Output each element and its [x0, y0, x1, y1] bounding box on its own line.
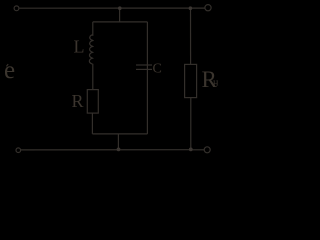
wire top horizontal: [19, 7, 205, 9]
terminal top-left: [14, 6, 19, 11]
svg-text:н: н: [213, 78, 219, 89]
resistor Rn body: [185, 64, 197, 97]
svg-text:L: L: [74, 37, 85, 57]
capacitor C bottom plate: [136, 68, 152, 70]
node C junction dot: [189, 148, 193, 152]
wire right branch upper: [190, 8, 192, 64]
wire tank bottom: [92, 133, 147, 135]
wire node C to terminal bottom-right: [193, 149, 205, 151]
inductor L coil: [89, 35, 93, 65]
terminal bottom-left: [16, 148, 21, 153]
wire drop from node A to tank top: [119, 8, 121, 22]
node A junction dot: [118, 6, 122, 10]
capacitor C top plate: [136, 64, 152, 66]
wire between L and R: [92, 64, 94, 90]
svg-text:R: R: [72, 91, 84, 111]
wire left branch upper: [92, 22, 94, 36]
label e accent: [6, 64, 8, 66]
resistor R body: [87, 90, 98, 114]
wire right branch of tank: [146, 22, 148, 134]
wire below R: [91, 113, 93, 134]
wire right branch lower: [190, 98, 192, 150]
wire tank bottom to node B: [117, 134, 119, 149]
node D junction dot: [189, 6, 193, 10]
svg-text:e: e: [4, 57, 15, 84]
terminal bottom-right: [204, 147, 210, 153]
svg-text:C: C: [153, 62, 162, 77]
wire bottom horizontal: [21, 149, 191, 151]
wire tank top: [93, 21, 148, 23]
node B junction dot: [117, 148, 121, 152]
terminal top-right: [205, 5, 211, 11]
